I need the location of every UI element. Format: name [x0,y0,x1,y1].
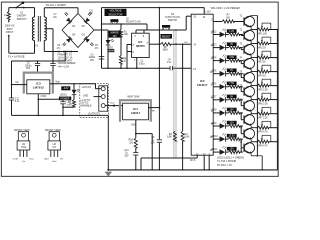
node voltage label 12V [227,121,237,125]
svg-text:0.1u: 0.1u [15,101,20,103]
transistor T4 [240,57,258,71]
node voltage label 9V [227,95,237,99]
pin 13 [203,153,206,169]
node voltage label 10V [227,108,237,112]
node voltage label 6V [227,69,237,73]
transformer X1 [32,8,46,54]
pin 3 [147,43,161,45]
svg-text:+1.2V TO: +1.2V TO [80,100,90,102]
capacitor C9 [151,137,162,144]
svg-text:LED2-LED11 = GREEN: LED2-LED11 = GREEN [217,156,244,160]
preset VR9 [257,135,279,147]
node output terminal block [80,84,109,118]
svg-text:1K: 1K [123,61,126,63]
wire IC2 pin row 7 [211,98,216,100]
svg-text:LED12: LED12 [60,95,68,97]
wire IC2 pin row 6 [211,85,216,87]
preset VR3 [257,51,279,63]
svg-text:VR9 4.7K: VR9 4.7K [258,146,268,148]
svg-text:CLK: CLK [184,42,189,44]
svg-text:F1 = 1A FUSE: F1 = 1A FUSE [8,54,25,58]
capacitor C1 [139,61,145,66]
node VOLTAGE SELECTOR [105,9,127,16]
capacitor C2 [25,60,40,72]
ground [105,115,113,176]
svg-text:LED6: LED6 [211,84,217,86]
svg-text:LED5: LED5 [211,71,217,73]
wire LED11 row riser [240,148,242,152]
svg-text:0.01u: 0.01u [139,63,145,65]
label component notes [217,156,244,167]
svg-text:T1-T10 = BC548: T1-T10 = BC548 [217,159,236,163]
svg-text:1K: 1K [69,104,72,106]
wire IC2 pin row 10 [210,137,217,139]
svg-text:LED3: LED3 [211,44,217,46]
wire LED1 drop [107,30,109,40]
LED LED7 [211,94,226,103]
svg-text:VR5 2.2K: VR5 2.2K [258,89,268,91]
svg-text:LED10: LED10 [211,136,219,138]
wire mains bottom [8,34,35,53]
wire -12V drop [73,84,75,90]
svg-text:R5A: R5A [129,139,134,142]
LED LED4 [211,55,226,64]
transistor T1 [240,15,258,29]
wire GND stub [94,96,102,98]
LED LED1 [106,39,115,68]
svg-text:SWITCH: SWITCH [168,20,178,22]
svg-text:10K: 10K [226,17,231,19]
svg-text:VR1 100: VR1 100 [258,33,268,35]
svg-text:25V: 25V [26,68,31,70]
wire ground bus [108,169,277,171]
resistor R13 [226,98,243,101]
wire row 4 to transistor [240,60,242,62]
wire clock to IC2 [171,42,192,45]
wire row 11 to transistor [240,151,242,153]
wire IC2 pin row 9 [211,124,216,126]
wire right rail [276,30,278,170]
node LED1 GREEN label [107,49,115,52]
svg-text:LED9: LED9 [211,123,217,125]
capacitor C3 [89,54,104,61]
capacitor C7 [53,12,68,19]
pin 8 [143,30,145,38]
wire row 9 to transistor [240,125,242,127]
svg-text:LED1: LED1 [108,47,114,49]
svg-text:INPUT: INPUT [6,31,14,34]
svg-text:LM7912: LM7912 [33,86,44,90]
wire IC3 Vin [12,82,27,84]
svg-text:LM317: LM317 [131,111,141,115]
wire IC2 pin row 3 [211,46,216,48]
svg-text:Vout: Vout [52,160,57,163]
svg-text:Vout: Vout [29,158,34,161]
wire IC2 pin row 5 [210,72,217,74]
wire row 8 to transistor [240,112,242,114]
node voltage label 1.2V [227,29,237,33]
svg-text:9V: 9V [230,96,233,98]
capacitor C12 [60,102,71,107]
svg-text:POWER: POWER [60,97,69,100]
svg-text:+12V DC: +12V DC [82,87,92,89]
resistor R17 [226,151,243,154]
wire +12V branch [204,8,211,15]
transistor T8 [240,113,258,128]
pin 12 [196,153,199,158]
wire negative rail vertical [11,61,13,115]
LED LED2 [211,28,226,37]
resistor R9 [226,46,243,49]
node 230V AC input [5,25,15,34]
preset VR2 [257,37,279,49]
resistor R1b [119,56,127,69]
preset VR7 [257,107,279,119]
wire secondary top [44,8,78,17]
capacitor C5 [90,42,99,49]
op-amp U1 heatsink IC3 [24,73,53,94]
capacitor C4 [167,59,172,70]
svg-text:LED2: LED2 [211,31,217,33]
svg-text:HEAT SINK: HEAT SINK [127,95,140,98]
wire bridge positive output [94,8,108,69]
wire preset left rail [257,16,259,157]
svg-text:PUSH-TO-ON: PUSH-TO-ON [126,21,141,23]
node voltage label 4.5V [227,55,237,59]
node GREEN label [59,97,71,101]
wire switch row A [102,23,148,30]
resistor R12 [226,85,243,88]
counter IC2 CD4017 [191,14,213,155]
LED LED3 [211,42,226,51]
fuse F1 [4,8,10,23]
svg-text:13.5V: 13.5V [229,136,236,138]
resistor R8 [226,33,243,36]
svg-text:2200u: 2200u [25,65,32,67]
svg-text:COM: COM [13,159,18,161]
svg-text:VR8 4.7K: VR8 4.7K [258,132,268,134]
transistor T7 [240,100,258,114]
diode D4 [66,37,72,43]
svg-text:LED7: LED7 [211,97,217,99]
svg-text:VOLTAGE: VOLTAGE [110,9,122,13]
wire S3 to IC2 reset [176,16,191,30]
svg-text:LM: LM [22,144,25,146]
transistor T5 [240,71,258,85]
resistor R1 [119,24,128,56]
svg-text:0.1u: 0.1u [167,62,172,64]
wire +12V to terminal [74,84,101,89]
resistor R2 [161,43,171,52]
pin 1 [134,58,137,69]
wire IC2 pin row 11 [210,150,217,152]
node RESET [161,34,173,39]
switch S2 [110,19,140,24]
wire main vertical rail [159,8,161,170]
wire bottom link [141,158,197,170]
LED LED12 [60,89,80,97]
node voltage label 3V [227,42,237,46]
pin 2 [127,45,135,48]
capacitor C11 [9,98,20,103]
LED LED6 [211,81,226,90]
node MAINS ON [109,31,121,38]
node voltage label 15V [227,147,237,151]
svg-text:R7-R12 = 1K: R7-R12 = 1K [217,163,232,167]
transistor T2 [240,29,258,43]
label X1 transformer note [58,51,76,69]
svg-text:+12V: +12V [205,11,211,13]
node -12V [61,86,70,90]
capacitor C2b [50,60,55,72]
resistor R16 [226,138,243,141]
svg-text:NE555: NE555 [136,44,145,48]
svg-text:PUSH-TO-ON: PUSH-TO-ON [165,17,180,19]
wire pins 2-6 [126,45,128,69]
svg-text:C10: C10 [124,150,129,152]
resistor R11 [226,72,243,75]
svg-text:ON: ON [113,35,117,38]
resistor R10 [226,59,243,62]
bridge rectifier D1-D4 [62,14,94,48]
resistor R7 [222,15,244,24]
svg-text:Vout: Vout [110,102,115,105]
svg-text:VR2 1K: VR2 1K [258,47,266,49]
wire variable output [105,102,122,107]
svg-text:390K: 390K [163,50,169,52]
capacitor C8 [88,10,94,15]
svg-text:LED11: LED11 [211,149,218,151]
svg-text:VR4 1K: VR4 1K [258,75,266,77]
LED LED5 [211,68,226,77]
wire switch row B [136,29,177,31]
wire bridge negative return [12,52,66,62]
regulator IC4 LM317 [123,103,149,120]
wire IC4 ADJ [131,120,152,170]
wire IC4 Vin [148,108,159,113]
wire row 5 to transistor [240,73,242,75]
preset VR4 [257,65,279,77]
svg-text:RESET: RESET [162,34,171,38]
svg-text:6V: 6V [230,70,233,72]
svg-text:OUTPUTS: OUTPUTS [88,112,100,115]
resistor R15 [226,125,243,128]
wire IC3 Vout [50,81,75,85]
wire common bottom left [12,115,109,117]
preset VR5 [257,79,279,91]
svg-text:Vout: Vout [55,81,60,84]
regulator LM7912 front view [13,132,34,163]
capacitor C6 [57,42,66,49]
svg-text:-12V: -12V [63,86,69,90]
svg-text:6.8K: 6.8K [185,137,190,139]
heatsink IC4 [120,100,151,122]
svg-text:2200u: 2200u [89,57,96,59]
resistor R3 [167,131,176,141]
transistor T6 [240,85,258,99]
wire grey pair [174,30,176,158]
svg-text:COM: COM [41,96,46,98]
svg-text:VR1-VR9 = 2.2K PRESET: VR1-VR9 = 2.2K PRESET [211,6,241,10]
wire row 3 to transistor [240,47,242,49]
svg-text:7912: 7912 [21,147,27,149]
wire IC3 COM [38,94,64,116]
transistor T10 [238,139,262,170]
svg-text:LED8: LED8 [211,110,217,112]
svg-text:CD4017: CD4017 [197,83,208,87]
wire selector rail [102,7,205,9]
regulator LM317 front view [44,132,64,163]
resistor R6 [62,95,75,108]
svg-text:10K: 10K [124,34,129,36]
preset VR6 [257,93,279,105]
wire IC2 pin row 2 [211,33,216,35]
svg-text:VR7 2.2K: VR7 2.2K [258,118,268,120]
svg-text:LED4: LED4 [211,57,217,59]
resistor R14 [226,111,243,114]
svg-text:3V: 3V [230,44,233,46]
diode D2 [84,18,90,24]
svg-text:LM: LM [53,144,56,146]
wire row 10 to transistor [240,138,242,140]
pin 8 [209,153,211,169]
resistor R5 [129,138,138,152]
resistor R4 [181,44,190,170]
svg-text:6.8K: 6.8K [167,137,172,139]
regulator IC3 LM7912 [27,80,50,94]
wire row 2 to transistor [240,34,242,36]
svg-text:VARIABLE: VARIABLE [80,104,92,107]
svg-text:VR6 2.2K: VR6 2.2K [258,103,268,105]
preset VR1 [257,23,279,35]
wire row 7 to transistor [240,99,242,101]
LED LED9 [211,120,226,129]
wire secondary centre tap [46,29,53,61]
svg-text:25V: 25V [124,155,129,157]
svg-text:12V: 12V [230,122,235,124]
capacitor C10 [124,150,138,170]
transistor Q1 T1 row [211,20,222,22]
diode D3 [84,37,90,43]
wire mains top [9,7,35,9]
svg-text:GND: GND [83,95,88,97]
wire IC2 pin row 8 [211,111,216,113]
svg-text:SWITCH: SWITCH [17,18,27,21]
svg-text:25V: 25V [151,143,156,145]
svg-text:TRANSFORMER: TRANSFORMER [58,62,76,65]
LED LED10 [211,133,226,142]
node voltage label 7.5V [227,82,237,86]
wire IC2 pin row 4 [211,59,216,61]
svg-text:25V: 25V [90,60,95,62]
pin 4 [134,30,136,38]
svg-text:D1-D4 = 1N4007: D1-D4 = 1N4007 [46,3,67,7]
svg-text:+Ve = 2.5A: +Ve = 2.5A [58,66,70,69]
switch S3 [162,14,180,30]
svg-text:VR3 1K: VR3 1K [258,61,266,63]
wire rail common [102,67,192,69]
LED LED8 [211,107,226,116]
preset VR8 [257,121,279,133]
svg-text:15V DC: 15V DC [80,103,88,105]
transistor T3 [240,43,258,57]
pin 6 [127,52,135,55]
svg-text:ADJ: ADJ [131,123,135,126]
border frame [1,2,278,176]
LED LED11 [211,146,226,155]
transistor T9 [240,126,258,142]
wire secondary bottom [44,41,78,52]
node voltage label 13.5V [227,134,237,138]
svg-text:ADJ: ADJ [44,158,48,161]
switch S1 [15,2,26,21]
timer IC1 NE555 [132,33,150,57]
svg-text:SELECTOR: SELECTOR [109,12,123,16]
diode D1 [66,18,72,24]
svg-text:NC 8: NC 8 [190,160,196,162]
wire row 6 to transistor [240,86,242,88]
svg-text:GREEN: GREEN [107,51,115,53]
